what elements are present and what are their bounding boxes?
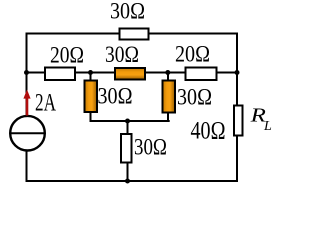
svg-text:20Ω: 20Ω bbox=[175, 42, 210, 67]
resistor 20Ω left bbox=[45, 68, 75, 81]
svg-text:L: L bbox=[263, 119, 272, 134]
wire left vertical bbox=[26, 33, 28, 117]
node bottom center bbox=[125, 179, 130, 184]
wire inner horizontal bbox=[90, 120, 170, 122]
resistor 30Ω top bbox=[120, 29, 149, 40]
resistor 30Ω middle horizontal bbox=[115, 68, 145, 80]
node inner center bbox=[125, 119, 130, 124]
node right middle bbox=[235, 70, 240, 75]
resistor 30Ω bottom vertical bbox=[121, 134, 132, 163]
svg-text:30Ω: 30Ω bbox=[98, 84, 133, 109]
wire stub right orange resistor bbox=[167, 73, 169, 123]
node left middle bbox=[24, 70, 29, 75]
svg-text:30Ω: 30Ω bbox=[105, 42, 139, 67]
svg-text:30Ω: 30Ω bbox=[177, 85, 212, 110]
svg-text:30Ω: 30Ω bbox=[134, 135, 167, 160]
node left orange top bbox=[88, 70, 93, 75]
node right orange top bbox=[165, 70, 170, 75]
wire stub left orange resistor bbox=[90, 73, 92, 123]
wire middle horizontal bbox=[27, 72, 238, 74]
current source 2A bbox=[10, 116, 45, 151]
svg-text:30Ω: 30Ω bbox=[110, 0, 145, 24]
resistor RL right bbox=[234, 106, 243, 136]
wire stub bottom resistor bbox=[127, 121, 129, 181]
resistor 30Ω right vertical bbox=[163, 81, 176, 113]
resistor 20Ω right bbox=[186, 68, 217, 81]
wire top bbox=[27, 33, 238, 35]
wire bottom bbox=[27, 180, 238, 182]
current arrow 2A bbox=[26, 97, 29, 116]
resistor 30Ω left vertical bbox=[85, 81, 98, 113]
svg-text:40Ω: 40Ω bbox=[191, 118, 226, 145]
wire left vertical lower bbox=[26, 150, 28, 182]
svg-text:20Ω: 20Ω bbox=[50, 43, 84, 68]
wire right vertical bbox=[236, 33, 238, 183]
svg-text:2A: 2A bbox=[35, 90, 56, 117]
